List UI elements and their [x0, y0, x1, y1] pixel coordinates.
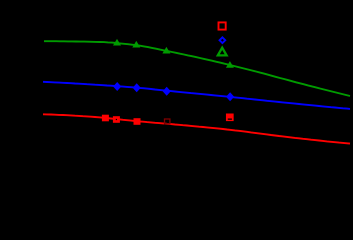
green curve — [44, 41, 350, 96]
dark red open square marker — [165, 119, 170, 124]
blue diamond marker 1 — [113, 82, 121, 91]
green triangle marker 2 — [132, 41, 140, 48]
blue diamond marker 2 — [133, 83, 141, 92]
red square marker 2 (dark center) — [113, 116, 120, 123]
legend open red square — [219, 22, 226, 29]
red square marker 1 — [102, 115, 109, 122]
legend open blue diamond — [218, 36, 226, 44]
red filled square with black slot — [226, 114, 234, 122]
red curve — [43, 114, 350, 143]
green triangle marker 4 — [226, 61, 234, 68]
green triangle marker 1 — [113, 39, 121, 46]
blue diamond marker 3 — [163, 87, 171, 96]
green triangle marker 3 — [162, 47, 170, 54]
blue curve — [43, 82, 350, 109]
red square marker 3 — [134, 118, 141, 125]
blue diamond marker 4 — [226, 92, 234, 101]
legend open green triangle — [218, 48, 227, 56]
